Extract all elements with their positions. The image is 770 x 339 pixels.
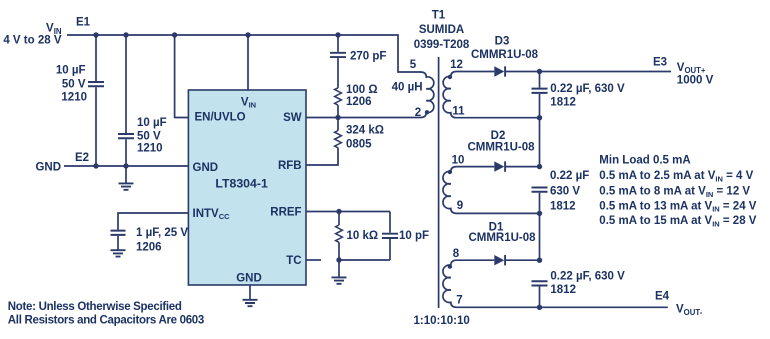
svg-text:1210: 1210 xyxy=(137,143,163,155)
junction on GND rail at C2 xyxy=(123,163,128,168)
svg-text:1812: 1812 xyxy=(550,284,576,296)
secondary B phase dot xyxy=(448,170,452,174)
svg-text:4 V to 28 V: 4 V to 28 V xyxy=(3,34,61,46)
svg-text:50 V: 50 V xyxy=(62,78,86,90)
svg-text:0.22 µF, 630 V: 0.22 µF, 630 V xyxy=(550,271,625,283)
svg-text:10: 10 xyxy=(452,154,465,166)
wire D2 to bus xyxy=(506,166,540,168)
wire RREF pin to RC network xyxy=(306,211,390,213)
svg-text:1206: 1206 xyxy=(346,96,372,108)
wire pin 11 to bus xyxy=(457,117,540,119)
svg-text:0.5 mA to 15 mA at VIN = 28 V: 0.5 mA to 15 mA at VIN = 28 V xyxy=(599,215,756,228)
wire bottom of RC network xyxy=(339,259,390,261)
wire TC pin stub xyxy=(306,259,321,261)
diode D3 CMMR1U-08 xyxy=(494,66,504,76)
svg-text:630 V: 630 V xyxy=(550,185,580,197)
svg-text:1210: 1210 xyxy=(61,92,87,104)
wire pin 9 to bus xyxy=(457,212,540,214)
junction on VIN rail at 270pF xyxy=(335,32,340,37)
svg-text:EN/UVLO: EN/UVLO xyxy=(195,112,246,124)
secondary C phase dot xyxy=(448,264,452,268)
svg-text:5: 5 xyxy=(410,59,417,71)
wire IC GND pin to ground xyxy=(249,285,251,300)
svg-text:1 µF, 25 V: 1 µF, 25 V xyxy=(136,227,188,239)
svg-text:9: 9 xyxy=(457,200,463,212)
junction at RC bottom node xyxy=(336,257,341,262)
capacitor C7 0.22uF 630V 1812 xyxy=(532,188,548,192)
resistor R3 10kohm xyxy=(338,212,340,226)
svg-text:E4: E4 xyxy=(655,291,670,303)
svg-text:0805: 0805 xyxy=(346,138,372,150)
svg-text:10 pF: 10 pF xyxy=(399,230,429,242)
svg-text:50 V: 50 V xyxy=(137,130,161,142)
wire INTVCC pin to C4 xyxy=(118,213,188,230)
junction on SW node xyxy=(335,115,340,120)
secondary A phase dot xyxy=(448,75,452,79)
ground symbol on GND rail xyxy=(125,166,127,183)
svg-text:RREF: RREF xyxy=(270,206,301,218)
svg-text:10 kΩ: 10 kΩ xyxy=(347,230,379,242)
svg-text:7: 7 xyxy=(456,294,462,306)
svg-text:100 Ω: 100 Ω xyxy=(346,84,378,96)
junction on GND rail at C1 xyxy=(93,163,98,168)
junction bus at D2 xyxy=(537,164,542,169)
wire pin 7 to E4 output xyxy=(457,306,668,308)
svg-text:Note: Unless Otherwise Specifi: Note: Unless Otherwise Specified xyxy=(8,301,182,313)
wire pin 8 to D1 xyxy=(457,259,495,261)
svg-text:GND: GND xyxy=(35,161,61,173)
svg-text:SW: SW xyxy=(283,112,302,124)
wire pin 12 to D3 xyxy=(457,71,495,73)
ground symbol at IC GND xyxy=(243,300,258,306)
transformer secondary winding 8-7 xyxy=(443,260,457,307)
svg-text:2: 2 xyxy=(415,107,421,119)
wire SW node to transformer pin 2 xyxy=(306,117,421,119)
wire D1 to bus xyxy=(506,259,540,261)
svg-text:12: 12 xyxy=(450,59,463,71)
wire GND rail E2 to IC GND pin xyxy=(64,165,188,167)
svg-text:GND: GND xyxy=(236,272,262,284)
svg-text:0.22 µF: 0.22 µF xyxy=(550,170,589,182)
svg-text:CMMR1U-08: CMMR1U-08 xyxy=(468,232,536,244)
svg-text:GND: GND xyxy=(193,162,219,174)
resistor R2 324kohm 0805 xyxy=(337,118,339,131)
transformer T1 primary winding xyxy=(421,72,434,118)
capacitor C3 270pF xyxy=(337,35,339,52)
ground symbol at C4 xyxy=(111,250,126,256)
svg-text:VOUT+: VOUT+ xyxy=(677,62,706,75)
capacitor C8 0.22uF 630V 1812 xyxy=(532,281,548,285)
svg-text:D2: D2 xyxy=(491,130,506,142)
junction on VIN rail at C1 xyxy=(93,32,98,37)
svg-text:0.5 mA to 8 mA at VIN = 12 V: 0.5 mA to 8 mA at VIN = 12 V xyxy=(599,185,750,198)
capacitor C2 10uF 50V 1210 xyxy=(125,35,127,133)
junction at RREF node xyxy=(336,209,341,214)
svg-text:270 pF: 270 pF xyxy=(350,51,386,63)
capacitor C1 10uF 50V 1210 xyxy=(95,35,97,81)
svg-text:40 µH: 40 µH xyxy=(392,81,423,93)
junction bus at pin 9 xyxy=(537,211,542,216)
svg-text:RFB: RFB xyxy=(278,160,302,172)
svg-text:Min Load 0.5 mA: Min Load 0.5 mA xyxy=(599,155,690,167)
svg-text:SUMIDA: SUMIDA xyxy=(419,24,464,36)
ground symbol at RREF network xyxy=(338,260,340,277)
resistor R1 100ohm 1206 xyxy=(335,88,342,105)
svg-text:0.5 mA to 13 mA at VIN = 24 V: 0.5 mA to 13 mA at VIN = 24 V xyxy=(599,200,756,213)
svg-text:10 µF: 10 µF xyxy=(56,65,86,77)
junction on VIN rail at VIN pin xyxy=(245,32,250,37)
svg-text:T1: T1 xyxy=(432,9,446,21)
svg-text:1812: 1812 xyxy=(550,200,576,212)
svg-text:CMMR1U-08: CMMR1U-08 xyxy=(467,141,535,153)
svg-text:All Resistors and Capacitors A: All Resistors and Capacitors Are 0603 xyxy=(8,315,204,327)
svg-text:0.22 µF, 630 V: 0.22 µF, 630 V xyxy=(550,83,625,95)
transformer core xyxy=(438,57,440,308)
svg-text:TC: TC xyxy=(286,255,301,267)
svg-text:324 kΩ: 324 kΩ xyxy=(346,124,384,136)
svg-text:11: 11 xyxy=(452,105,465,117)
svg-text:E1: E1 xyxy=(76,16,91,28)
wire VIN rail to EN/UVLO pin xyxy=(175,35,189,118)
svg-text:0399-T208: 0399-T208 xyxy=(414,39,470,51)
svg-text:1000 V: 1000 V xyxy=(677,74,714,86)
svg-text:E3: E3 xyxy=(653,56,667,68)
junction on VIN rail at EN/UVLO xyxy=(172,32,177,37)
diode D1 CMMR1U-08 xyxy=(494,255,504,265)
capacitor C4 1uF 25V 1206 xyxy=(111,231,126,235)
svg-text:VOUT-: VOUT- xyxy=(676,304,703,317)
svg-text:1:10:10:10: 1:10:10:10 xyxy=(414,315,470,327)
svg-text:1206: 1206 xyxy=(136,241,162,253)
junction bus at D1 xyxy=(537,258,542,263)
primary phase dot xyxy=(425,110,429,114)
svg-text:CMMR1U-08: CMMR1U-08 xyxy=(471,49,539,61)
wire pin 10 to D2 xyxy=(457,166,495,168)
capacitor C5 10pF xyxy=(389,212,391,233)
transformer secondary winding 10-9 xyxy=(443,167,457,214)
junction on VIN rail at C2 xyxy=(123,32,128,37)
svg-text:E2: E2 xyxy=(75,152,89,164)
wire VIN rail from E1 to transformer pin 5 xyxy=(67,35,421,72)
svg-text:1812: 1812 xyxy=(550,96,576,108)
wire VIN rail to VIN pin xyxy=(247,35,249,90)
svg-text:LT8304-1: LT8304-1 xyxy=(215,177,268,191)
svg-text:D3: D3 xyxy=(495,36,510,48)
junction bus at pin 7 xyxy=(537,305,542,310)
wire D3 to E3 output xyxy=(506,71,671,73)
transformer secondary winding 12-11 xyxy=(443,72,456,118)
svg-text:10 µF: 10 µF xyxy=(137,117,167,129)
svg-text:0.5 mA to 2.5 mA at VIN = 4 V: 0.5 mA to 2.5 mA at VIN = 4 V xyxy=(599,170,753,183)
capacitor C6 0.22uF 630V 1812 xyxy=(539,72,541,88)
junction output bus top xyxy=(537,69,542,74)
junction bus at pin 11 xyxy=(537,115,542,120)
diode D2 CMMR1U-08 xyxy=(494,161,504,171)
op-amp U1 LT8304-1 body xyxy=(188,90,306,285)
svg-text:8: 8 xyxy=(453,248,460,260)
